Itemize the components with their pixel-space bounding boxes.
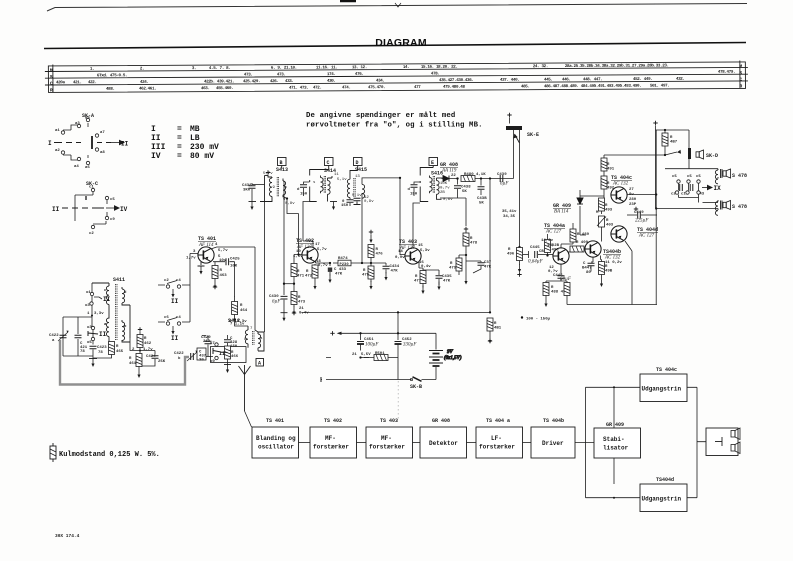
svg-text:C43B: C43B [477, 197, 487, 201]
capacitor C423 [90, 341, 108, 359]
svg-text:TS 401: TS 401 [198, 236, 216, 242]
svg-text:475.470.: 475.470. [368, 86, 385, 90]
svg-text:C37: C37 [484, 261, 492, 265]
svg-text:oscillator: oscillator [258, 444, 294, 451]
wire detector output riser [514, 130, 520, 247]
svg-text:C: C [50, 81, 53, 87]
capacitor C424 [140, 351, 166, 367]
resistor R487 [662, 129, 678, 155]
svg-text:s: s [313, 181, 316, 185]
svg-text:471. 473.: 471. 473. [289, 87, 308, 91]
svg-text:II: II [103, 296, 111, 303]
svg-text:R: R [739, 83, 742, 89]
svg-text:AC 132: AC 132 [612, 182, 629, 187]
svg-text:478.479.: 478.479. [718, 71, 735, 75]
resistor R476 [368, 230, 383, 263]
svg-text:C449: C449 [634, 211, 644, 215]
svg-text:27: 27 [629, 188, 634, 192]
svg-text:a7: a7 [100, 131, 105, 135]
capacitor C449 [627, 207, 657, 224]
svg-text:100 - 150µ: 100 - 150µ [526, 318, 551, 322]
svg-text:P230: P230 [340, 263, 350, 267]
svg-text:IV: IV [151, 152, 161, 161]
svg-text:E: E [431, 160, 434, 166]
node labels TS401 [186, 243, 228, 263]
svg-text:473.: 473. [244, 74, 253, 78]
contact pair c6 c4 [158, 283, 190, 342]
svg-text:C451: C451 [364, 338, 374, 342]
svg-text:14.: 14. [403, 66, 410, 70]
svg-text:M: M [739, 63, 742, 69]
svg-text:c2: c2 [89, 232, 94, 236]
contact row c5 [671, 175, 721, 203]
transformer S411 [92, 283, 130, 342]
node E box [429, 158, 438, 167]
svg-text:C: C [583, 262, 586, 266]
svg-text:21: 21 [352, 353, 357, 357]
svg-text:GTxd. 475-0.5.: GTxd. 475-0.5. [97, 73, 127, 78]
svg-text:a4: a4 [74, 165, 79, 169]
svg-text:476.: 476. [355, 73, 364, 77]
svg-text:4: 4 [215, 243, 218, 247]
svg-text:433.: 433. [285, 80, 294, 84]
fold mark dashed [397, 381, 399, 421]
svg-text:SK-D: SK-D [706, 153, 718, 159]
svg-text:GR 408: GR 408 [440, 162, 458, 168]
svg-text:6. 9. 21.10.: 6. 9. 21.10. [271, 67, 297, 71]
svg-text:BA 114: BA 114 [554, 210, 569, 215]
svg-text:LF-: LF- [491, 435, 502, 442]
svg-text:De angivne spændinger er målt: De angivne spændinger er målt med [306, 112, 455, 120]
svg-text:B: B [280, 160, 283, 166]
svg-text:MF-: MF- [381, 435, 392, 442]
svg-text:c5: c5 [687, 175, 692, 179]
svg-text:c5: c5 [696, 175, 701, 179]
svg-text:AA 119: AA 119 [441, 169, 457, 174]
wire detector to rail [489, 179, 491, 314]
svg-text:496: 496 [507, 253, 515, 257]
svg-text:a3: a3 [75, 122, 80, 126]
block speakers box [706, 428, 740, 456]
svg-text:R: R [606, 219, 609, 223]
antenna [239, 365, 252, 427]
speaker bottom S478 [723, 201, 747, 211]
transformer S415 [347, 166, 400, 264]
junction dots block [613, 386, 615, 498]
capacitor C446 [553, 264, 565, 279]
svg-text:lisator: lisator [603, 445, 629, 452]
capacitor C451 [352, 332, 379, 357]
resistor R473 [291, 284, 309, 316]
svg-text:455.460.: 455.460. [216, 87, 233, 91]
wire top rail [656, 130, 690, 209]
wire rail to battery [326, 333, 436, 379]
resistor R477 [414, 268, 426, 294]
svg-text:TS 402: TS 402 [324, 418, 342, 424]
transformer S416 [420, 166, 453, 203]
svg-text:476: 476 [376, 253, 384, 257]
svg-text:R: R [470, 237, 473, 241]
TS403 node labels [395, 244, 431, 269]
svg-text:d: d [297, 187, 300, 192]
svg-text:forstærker: forstærker [313, 444, 349, 451]
svg-text:473: 473 [298, 301, 306, 305]
node R462/R461 [139, 350, 141, 352]
plus supply top [653, 121, 657, 130]
resistor R501 [326, 352, 398, 361]
svg-text:a1: a1 [55, 129, 60, 133]
switch SK-C [62, 192, 120, 224]
wire GR409 base link [580, 196, 604, 235]
svg-text:R: R [298, 296, 301, 300]
tuned circuit box outline [211, 347, 247, 363]
resistor R461 [129, 351, 142, 379]
capacitor S415 bottom left [341, 200, 354, 208]
node R471 R473 [284, 283, 294, 285]
wire to output transformers [656, 159, 719, 209]
svg-text:TS 404a: TS 404a [544, 223, 565, 229]
svg-text:MF-: MF- [325, 435, 336, 442]
block Udgangstrin top [640, 374, 687, 402]
svg-text:471: 471 [297, 275, 305, 279]
svg-text:10v: 10v [219, 259, 227, 263]
svg-text:485.: 485. [521, 85, 530, 89]
svg-text:A: A [258, 361, 261, 367]
transformer S478 top [715, 169, 722, 184]
wire block arrows [299, 440, 595, 445]
svg-text:d: d [408, 187, 411, 192]
resistor R475 [362, 262, 374, 290]
svg-text:d: d [124, 290, 127, 295]
plus arrow rail [330, 331, 334, 335]
svg-text:CB: CB [539, 250, 544, 254]
svg-text:22: 22 [451, 174, 456, 178]
svg-text:2.: 2. [140, 67, 144, 71]
TS404a voltage labels [541, 239, 560, 274]
wire TS401 collector [212, 247, 259, 332]
wire antenna into block [251, 426, 253, 428]
capacitor C43B [477, 177, 487, 205]
svg-text:24. 32.: 24. 32. [533, 65, 548, 69]
svg-text:o5: o5 [87, 341, 92, 345]
svg-text:0,7v: 0,7v [318, 264, 328, 268]
capacitor C414d [297, 182, 310, 197]
svg-text:10K: 10K [230, 265, 238, 269]
svg-text:180: 180 [230, 345, 238, 349]
transistor TS404b [585, 241, 601, 257]
svg-text:452. 449.: 452. 449. [633, 78, 652, 82]
svg-text:R: R [605, 265, 608, 269]
capacitor C433 [328, 263, 347, 283]
svg-text:5K: 5K [479, 202, 484, 206]
svg-text:TS 403: TS 403 [380, 418, 398, 424]
wire rail left stub [321, 379, 322, 381]
block Udgangstrin bottom [640, 484, 687, 512]
svg-text:R501: R501 [375, 352, 385, 356]
svg-text:C: C [327, 160, 330, 166]
svg-text:Blanding og: Blanding og [256, 435, 296, 442]
svg-text:448. 447.: 448. 447. [583, 78, 602, 82]
svg-text:4.5. 7. 8.: 4.5. 7. 8. [209, 67, 231, 71]
svg-text:434.: 434. [376, 79, 385, 83]
svg-text:3.: 3. [192, 67, 196, 71]
bottom-left texts [50, 443, 160, 539]
transistor TS404d [611, 226, 627, 242]
resistor R466 [225, 346, 239, 365]
svg-text:472: 472 [305, 275, 313, 279]
svg-text:5,7v: 5,7v [317, 248, 327, 252]
svg-text:II: II [121, 141, 129, 148]
TS402 node labels [293, 243, 328, 268]
svg-text:S 478: S 478 [732, 173, 747, 179]
svg-text:=: = [177, 152, 182, 161]
svg-text:b: b [178, 356, 181, 361]
resistor R489 [561, 223, 590, 248]
capacitor C438a [242, 183, 265, 202]
svg-text:C439: C439 [497, 173, 507, 177]
svg-text:230 mV: 230 mV [190, 143, 219, 152]
svg-text:=: = [177, 134, 182, 143]
transistor TS404c label [611, 175, 632, 187]
svg-text:TS 404c: TS 404c [656, 367, 677, 373]
svg-text:C424: C424 [146, 355, 156, 359]
svg-text:Driver: Driver [542, 440, 564, 447]
svg-text:49B: 49B [605, 270, 613, 274]
svg-text:9: 9 [273, 186, 276, 190]
svg-text:R: R [494, 322, 497, 326]
contact o7 o9 [210, 342, 225, 364]
svg-text:3,3v: 3,3v [94, 312, 104, 316]
svg-text:486.487.488.489. 484.495.491.4: 486.487.488.489. 484.495.491.493.495.493… [544, 85, 641, 90]
svg-text:C430: C430 [269, 295, 279, 299]
svg-text:R: R [607, 182, 610, 186]
svg-text:10K: 10K [440, 182, 448, 186]
svg-text:47K: 47K [484, 266, 492, 270]
svg-text:o3: o3 [87, 326, 92, 330]
svg-text:150: 150 [300, 193, 308, 197]
TS404c voltage labels [629, 188, 637, 207]
svg-text:S 478: S 478 [732, 204, 747, 210]
svg-text:225µF: 225µF [635, 219, 649, 224]
svg-text:M: M [596, 211, 599, 215]
svg-text:8v: 8v [629, 193, 634, 197]
svg-text:425.429.: 425.429. [243, 80, 260, 84]
svg-text:Detektor: Detektor [429, 440, 458, 447]
svg-text:4B1: 4B1 [494, 327, 502, 331]
svg-text:1: 1 [87, 312, 90, 316]
svg-text:1.: 1. [90, 68, 94, 72]
svg-text:174.: 174. [327, 73, 336, 77]
svg-text:47K: 47K [443, 280, 451, 284]
svg-text:I: I [151, 125, 156, 134]
svg-text:473.: 473. [277, 73, 286, 77]
ground under R466 [224, 365, 231, 374]
diode GR408 [442, 174, 458, 182]
resistor kulmodstand symbol [50, 443, 56, 462]
component index table [45, 60, 748, 93]
svg-text:1,6v: 1,6v [293, 255, 303, 259]
svg-text:R: R [551, 286, 554, 290]
svg-text:60µF: 60µF [560, 277, 572, 282]
node D box [354, 158, 363, 167]
svg-text:446.: 446. [562, 78, 571, 82]
svg-text:501. 497.: 501. 497. [650, 85, 669, 89]
contact pair c2 c4 [158, 279, 190, 305]
svg-text:5,7v: 5,7v [263, 172, 273, 176]
svg-text:15.16. 18.20. 22.: 15.16. 18.20. 22. [421, 66, 458, 70]
title rule [44, 43, 746, 49]
wire supply rail [302, 311, 491, 313]
switch SK-A [54, 123, 125, 160]
svg-text:SK-E: SK-E [527, 132, 539, 138]
TS401 emitter ground [198, 262, 205, 266]
svg-text:47K: 47K [335, 273, 343, 277]
resistor R481 [487, 318, 502, 344]
switch SK-D [604, 148, 718, 159]
registration tick top center [340, 0, 356, 2]
svg-text:478.: 478. [431, 72, 440, 76]
svg-text:II: II [171, 335, 179, 342]
svg-text:R: R [129, 357, 132, 361]
svg-text:a8: a8 [100, 151, 105, 155]
svg-text:0,4v: 0,4v [299, 312, 309, 316]
svg-text:c1: c1 [89, 186, 94, 190]
svg-text:150: 150 [341, 204, 349, 208]
svg-text:80: 80 [586, 271, 591, 275]
svg-text:R: R [415, 275, 418, 279]
svg-text:c2: c2 [164, 279, 169, 283]
svg-text:330µF: 330µF [403, 343, 417, 348]
block MF-forstaerker 2 [366, 427, 413, 458]
resistor R474 [329, 257, 371, 267]
svg-text:28a.25.35.28b.34.38a.32.29b.31: 28a.25.35.28b.34.38a.32.29b.31.27.29a.28… [565, 63, 669, 69]
svg-text:475: 475 [362, 274, 370, 278]
svg-text:5,3v: 5,3v [420, 249, 430, 253]
svg-text:C438: C438 [461, 186, 471, 190]
svg-text:464: 464 [240, 309, 248, 313]
svg-text:0,9v: 0,9v [364, 200, 374, 204]
svg-text:C422: C422 [174, 352, 184, 356]
block Detektor [420, 427, 467, 458]
svg-text:AC 132: AC 132 [604, 256, 621, 261]
svg-text:430.: 430. [327, 80, 336, 84]
switch SK-B [410, 377, 422, 390]
svg-text:B447: B447 [582, 267, 592, 271]
svg-text:forstærker: forstærker [479, 444, 515, 451]
svg-text:421.: 421. [73, 81, 82, 85]
svg-text:o1: o1 [86, 291, 91, 295]
svg-text:479: 479 [449, 267, 457, 271]
trimmer capacitor C422 [49, 331, 69, 344]
svg-text:c6: c6 [164, 316, 169, 320]
svg-text:462.461.: 462.461. [139, 87, 156, 91]
node B box [278, 158, 287, 167]
transistor TS404b label [603, 249, 622, 265]
diode GR409 [577, 190, 583, 235]
svg-text:o7: o7 [210, 342, 215, 346]
resistor R464 [229, 262, 248, 326]
svg-text:C452: C452 [402, 338, 412, 342]
transformer S414 [310, 166, 348, 202]
svg-text:c4: c4 [176, 279, 181, 283]
svg-text:17: 17 [315, 243, 320, 247]
svg-text:S415: S415 [355, 167, 367, 173]
svg-text:R: R [50, 87, 53, 93]
svg-text:472.: 472. [313, 87, 322, 91]
svg-text:AC 127: AC 127 [638, 234, 655, 239]
svg-text:477: 477 [414, 86, 421, 90]
capacitor C428 [224, 335, 238, 349]
svg-text:R: R [144, 337, 147, 341]
transformer S478 bottom [715, 200, 722, 215]
svg-text:1,7v: 1,7v [186, 257, 196, 261]
wire TS404d emitter to rail [625, 241, 632, 305]
svg-text:478: 478 [470, 242, 478, 246]
thick AM bus wire [60, 340, 189, 385]
svg-text:4B7: 4B7 [670, 141, 678, 145]
resistor R462 [132, 327, 153, 352]
svg-text:R: R [220, 269, 223, 273]
svg-text:R: R [605, 204, 608, 208]
svg-text:TS 401: TS 401 [266, 418, 284, 424]
switch SK-E [506, 113, 539, 143]
svg-text:C438: C438 [242, 184, 252, 188]
diode GR409 label [553, 203, 571, 215]
ground under S414 [330, 202, 337, 211]
contact o3 o5 lower [87, 326, 107, 345]
svg-text:III: III [151, 143, 166, 152]
svg-text:b: b [124, 324, 127, 329]
capacitor C429 [201, 336, 212, 357]
svg-text:14,2B: 14,2B [547, 244, 560, 248]
transistor TS401 [198, 247, 214, 263]
svg-text:420a: 420a [56, 81, 66, 85]
capacitor C439 [489, 173, 510, 187]
svg-text:R: R [508, 248, 511, 252]
wire bus to section box [210, 353, 228, 357]
svg-text:GR 409: GR 409 [606, 422, 624, 428]
svg-text:30: 30 [199, 359, 204, 363]
svg-text:3K6: 3K6 [243, 189, 251, 193]
svg-text:437. 440.: 437. 440. [500, 79, 519, 83]
speaker top S478 [723, 169, 747, 179]
input box C437 [197, 348, 207, 363]
svg-text:Kulmodstand 0,125 W. 5%.: Kulmodstand 0,125 W. 5%. [59, 451, 160, 459]
svg-text:422.: 422. [88, 81, 97, 85]
svg-text:II: II [99, 331, 107, 338]
capacitor C425 [213, 258, 240, 269]
note 100-150uA [521, 316, 551, 321]
capacitor C438b [454, 177, 471, 198]
svg-text:forstærker: forstærker [369, 444, 405, 451]
svg-text:C425: C425 [230, 258, 240, 262]
ground under R478 [464, 276, 467, 285]
wire S413 secondary to TS402 base [283, 197, 299, 255]
wire TS404c collector up [627, 130, 656, 305]
transistor TS402 label [296, 238, 314, 250]
transistor TS403 label [399, 239, 417, 251]
svg-text:c9: c9 [110, 218, 115, 222]
svg-text:280: 280 [629, 198, 637, 202]
svg-text:11 0,2v: 11 0,2v [605, 261, 622, 265]
svg-text:2B: 2B [440, 191, 445, 195]
svg-text:M: M [50, 67, 53, 73]
svg-text:rørvoltmeter fra "o", og i sti: rørvoltmeter fra "o", og i stilling MB. [306, 122, 483, 130]
svg-text:0,64µF: 0,64µF [528, 260, 544, 265]
voltage labels 35,41v [502, 210, 517, 219]
svg-text:0,9v: 0,9v [395, 256, 405, 260]
capacitor C430 [269, 295, 288, 321]
